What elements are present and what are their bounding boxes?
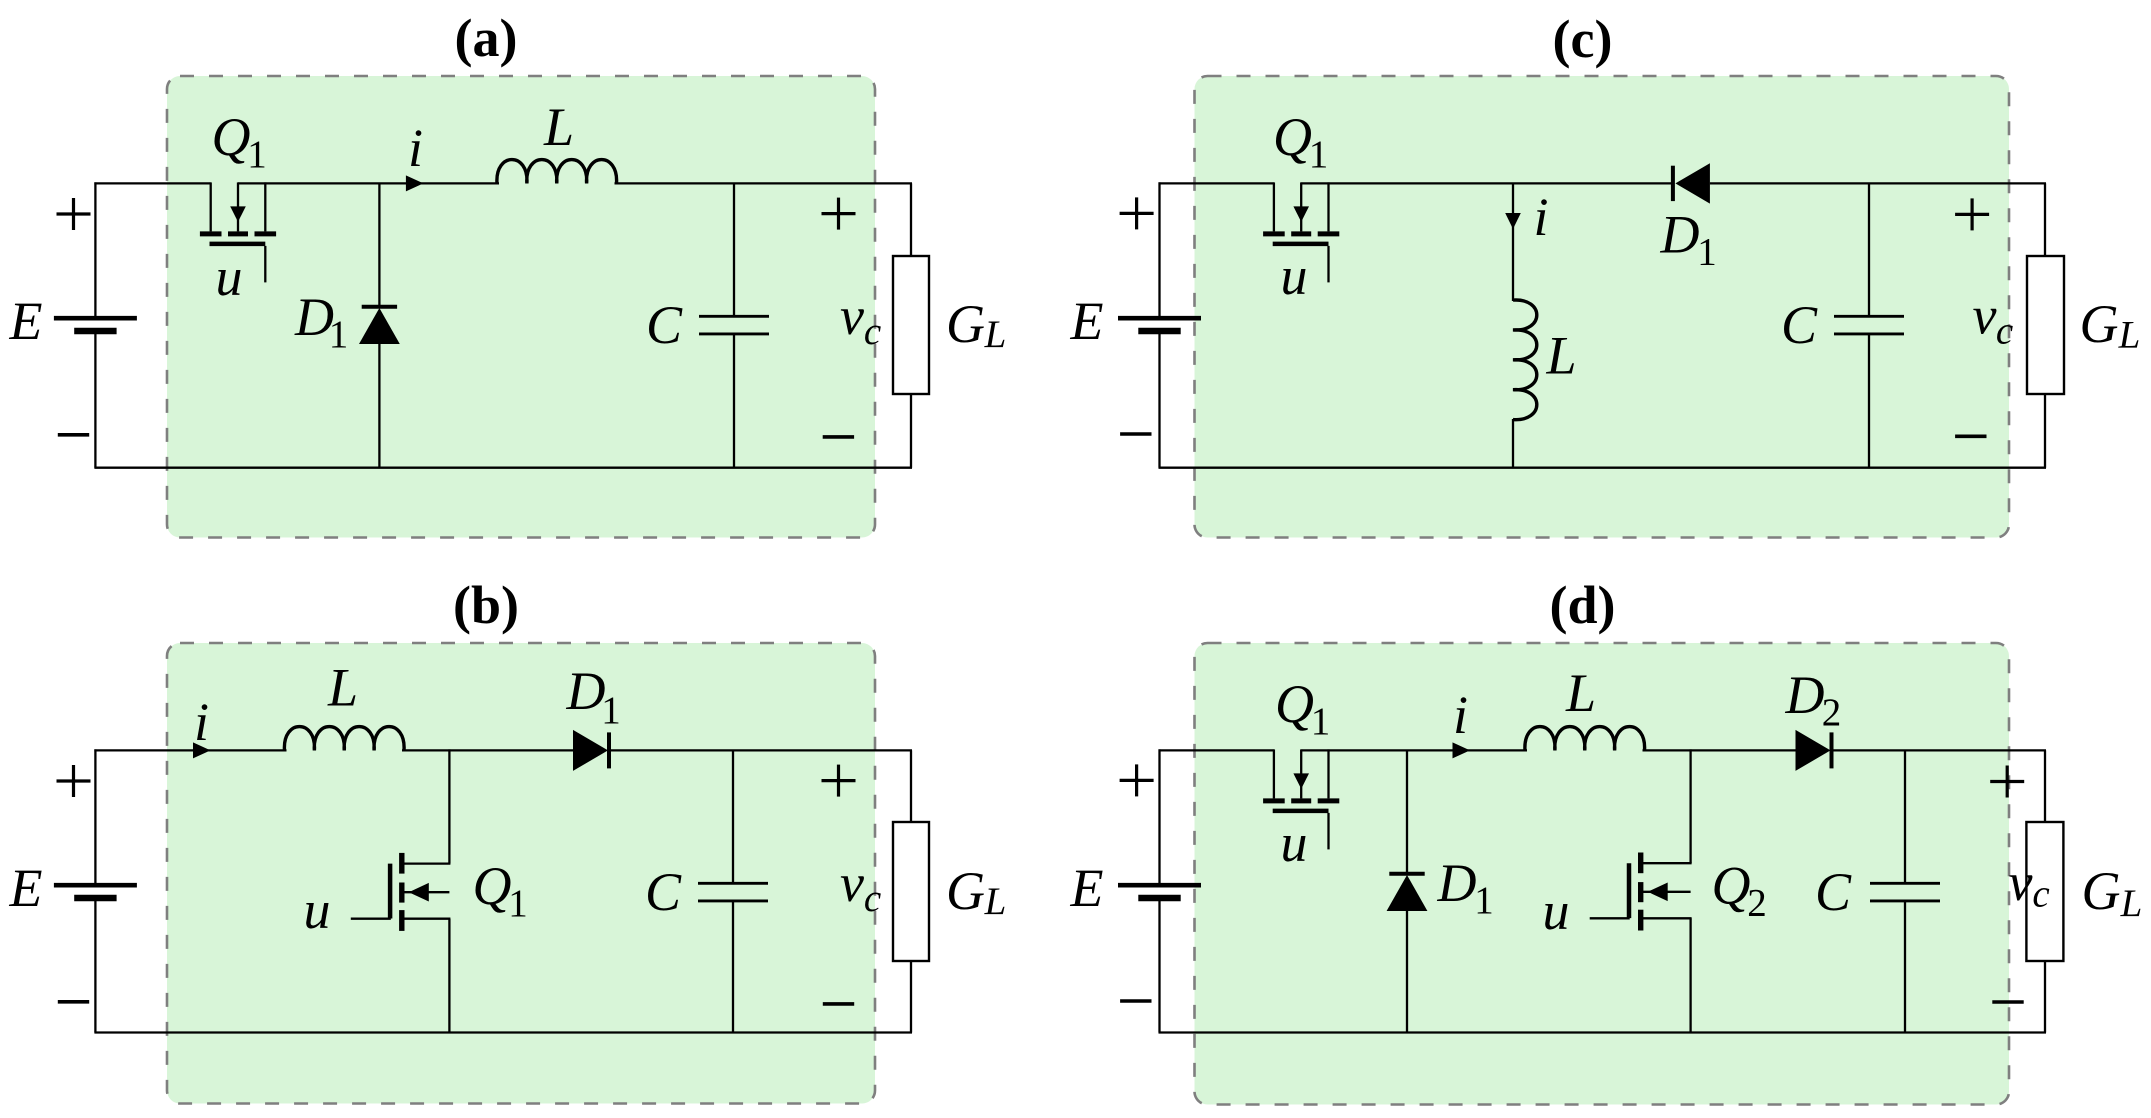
svg-text:L: L <box>1545 326 1576 386</box>
svg-text:c: c <box>2032 873 2049 916</box>
svg-text:1: 1 <box>1474 879 1494 922</box>
svg-text:1: 1 <box>508 882 528 925</box>
svg-text:v: v <box>840 853 864 913</box>
svg-text:Q: Q <box>473 856 512 916</box>
svg-text:v: v <box>2009 852 2033 912</box>
svg-text:L: L <box>1565 663 1596 723</box>
svg-text:v: v <box>840 286 864 346</box>
svg-text:u: u <box>1543 881 1570 941</box>
svg-text:u: u <box>216 247 243 307</box>
svg-text:2: 2 <box>1822 691 1842 734</box>
svg-text:(a): (a) <box>455 8 518 68</box>
svg-text:i: i <box>408 118 423 178</box>
svg-text:(d): (d) <box>1550 575 1616 635</box>
svg-text:C: C <box>646 295 683 355</box>
svg-text:(c): (c) <box>1553 9 1613 69</box>
svg-text:c: c <box>1996 310 2013 353</box>
svg-text:L: L <box>984 880 1007 923</box>
svg-text:C: C <box>1781 295 1818 355</box>
svg-text:L: L <box>327 658 358 718</box>
svg-text:L: L <box>543 97 574 157</box>
svg-text:E: E <box>1070 858 1104 918</box>
svg-text:2: 2 <box>1747 882 1767 925</box>
svg-text:u: u <box>304 880 331 940</box>
svg-text:u: u <box>1281 813 1308 873</box>
svg-text:Q: Q <box>1273 107 1312 167</box>
svg-text:i: i <box>1453 685 1468 745</box>
svg-text:1: 1 <box>1311 700 1331 743</box>
svg-text:1: 1 <box>1309 133 1329 176</box>
svg-text:u: u <box>1281 246 1308 306</box>
svg-text:c: c <box>864 310 881 353</box>
svg-text:E: E <box>1070 291 1104 351</box>
svg-text:L: L <box>2120 882 2143 925</box>
svg-text:L: L <box>2118 314 2141 357</box>
svg-text:L: L <box>984 313 1007 356</box>
svg-text:1: 1 <box>247 133 267 176</box>
svg-text:G: G <box>2082 861 2121 921</box>
svg-text:E: E <box>9 291 43 351</box>
svg-text:1: 1 <box>329 313 349 356</box>
svg-text:1: 1 <box>1697 231 1717 274</box>
svg-text:c: c <box>864 877 881 920</box>
svg-text:(b): (b) <box>453 575 519 635</box>
svg-text:C: C <box>1815 862 1852 922</box>
svg-text:Q: Q <box>212 107 251 167</box>
svg-text:G: G <box>2080 294 2119 354</box>
svg-text:D: D <box>1437 853 1477 913</box>
svg-text:Q: Q <box>1712 856 1751 916</box>
svg-text:E: E <box>9 858 43 918</box>
svg-text:v: v <box>1973 286 1997 346</box>
svg-text:i: i <box>1533 187 1548 247</box>
svg-text:1: 1 <box>601 689 621 732</box>
svg-text:i: i <box>194 692 209 752</box>
svg-text:D: D <box>1660 205 1700 265</box>
svg-text:G: G <box>946 294 985 354</box>
svg-text:D: D <box>566 661 606 721</box>
svg-text:G: G <box>946 861 985 921</box>
svg-text:C: C <box>645 862 682 922</box>
svg-text:D: D <box>1785 665 1825 725</box>
svg-text:Q: Q <box>1275 674 1314 734</box>
